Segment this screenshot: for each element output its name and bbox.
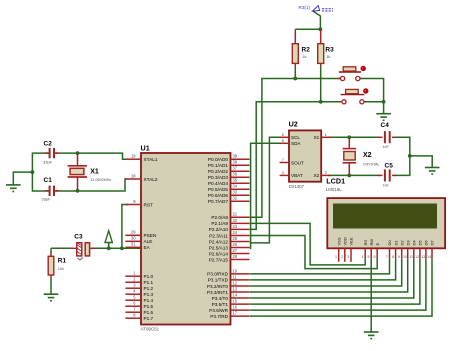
svg-text:35: 35 xyxy=(233,178,238,183)
svg-text:P2.2/A10: P2.2/A10 xyxy=(209,227,229,232)
wire LCD D2 to U1 P3.2 xyxy=(250,259,402,286)
svg-text:33pF: 33pF xyxy=(42,196,52,201)
wire LCD RS to U1 P2.1 pin22 xyxy=(250,223,365,265)
svg-text:19: 19 xyxy=(131,154,136,159)
svg-text:P0.1/AD1: P0.1/AD1 xyxy=(208,163,228,168)
svg-text:VBAT: VBAT xyxy=(291,173,303,178)
svg-text:SCL: SCL xyxy=(291,135,300,140)
wire LCD D6 to U1 P3.6 xyxy=(250,259,426,310)
ground (LCD RW) xyxy=(364,332,379,339)
wire voltage probe to R2/R3 top xyxy=(313,11,320,29)
svg-text:LCD1: LCD1 xyxy=(326,177,345,186)
wire RST-C3-EA net xyxy=(51,247,141,249)
svg-text:R2: R2 xyxy=(302,46,311,53)
wire XTAL2 net (C1/X1 bottom to U1 XTAL2 pin 18) xyxy=(32,179,127,191)
junction X1 top xyxy=(76,151,80,155)
op-amp U2 DS1307 RTC xyxy=(280,120,331,190)
svg-text:36: 36 xyxy=(233,172,238,177)
svg-text:P2.5/A13: P2.5/A13 xyxy=(209,245,229,250)
svg-text:P2.4/A12: P2.4/A12 xyxy=(209,239,229,244)
svg-text:13: 13 xyxy=(233,286,238,291)
svg-text:X2: X2 xyxy=(363,152,372,159)
junction crystal gnd branch xyxy=(31,170,35,174)
wire XTAL1 net (C2/X1 top to U1 XTAL1 pin 19) xyxy=(32,153,127,159)
svg-text:U2: U2 xyxy=(289,120,298,129)
junction crystal X2 top xyxy=(347,135,351,139)
wire gnd branch right of C4/C5 xyxy=(410,156,432,167)
svg-text:26: 26 xyxy=(233,242,238,247)
svg-text:1nF: 1nF xyxy=(383,184,390,188)
svg-text:C1: C1 xyxy=(44,177,53,184)
resistor R1 10k xyxy=(48,252,66,294)
wire button1/R2 net to U1 P2.0 xyxy=(250,79,341,218)
svg-text:33: 33 xyxy=(233,190,238,195)
svg-text:P0.0/AD0: P0.0/AD0 xyxy=(208,157,228,162)
svg-text:VDD: VDD xyxy=(343,237,348,246)
svg-text:23: 23 xyxy=(233,224,238,229)
svg-text:8: 8 xyxy=(392,255,394,259)
svg-text:9: 9 xyxy=(398,255,400,259)
svg-text:CRYSTAL: CRYSTAL xyxy=(363,162,380,166)
svg-text:18: 18 xyxy=(131,173,136,178)
ground (crystal caps) xyxy=(6,185,21,192)
svg-text:P2.6/A14: P2.6/A14 xyxy=(209,251,229,256)
svg-text:D1: D1 xyxy=(393,240,398,246)
wire left vertical joining C2 and C1 xyxy=(31,153,33,192)
capacitor C1 xyxy=(42,177,59,202)
svg-text:P1.0: P1.0 xyxy=(144,274,154,279)
svg-text:14: 14 xyxy=(427,255,431,259)
wire LCD D1 to U1 P3.1 xyxy=(250,259,396,280)
svg-text:RST: RST xyxy=(144,202,154,207)
wire SCL net U2 pin6 to U1 P2.4 pin25 xyxy=(250,137,281,243)
wire LCD D0 to U1 P3.0 xyxy=(250,259,390,274)
svg-text:30: 30 xyxy=(131,236,136,241)
wire LCD D3 to U1 P3.3 xyxy=(250,259,408,292)
junction R3 bottom xyxy=(319,100,323,104)
svg-text:14: 14 xyxy=(233,292,238,297)
svg-text:D3: D3 xyxy=(405,240,410,246)
LCD1 LM016L display xyxy=(326,177,445,262)
junction C4/C5 gnd branch xyxy=(408,154,412,158)
svg-text:D7: D7 xyxy=(430,240,435,246)
svg-text:2: 2 xyxy=(341,255,343,259)
svg-text:D6: D6 xyxy=(424,240,429,246)
svg-text:C5: C5 xyxy=(385,163,394,170)
svg-text:29: 29 xyxy=(131,230,136,235)
svg-text:U1: U1 xyxy=(141,144,150,153)
svg-text:17: 17 xyxy=(233,311,238,316)
junction R3 top / probe xyxy=(319,27,323,31)
resistor R2 1k xyxy=(292,29,310,78)
svg-text:12: 12 xyxy=(415,255,419,259)
svg-text:1k: 1k xyxy=(326,54,330,59)
svg-text:C2: C2 xyxy=(44,140,53,147)
svg-text:37: 37 xyxy=(233,166,238,171)
svg-text:10k: 10k xyxy=(58,266,64,271)
svg-text:R1: R1 xyxy=(58,258,67,265)
svg-text:XTAL1: XTAL1 xyxy=(144,157,158,162)
wire R2 top to R3 top xyxy=(295,28,320,30)
svg-text:P3.1/TXD: P3.1/TXD xyxy=(208,278,229,283)
svg-text:3: 3 xyxy=(347,255,349,259)
svg-text:D2: D2 xyxy=(399,240,404,246)
svg-text:SOUT: SOUT xyxy=(291,160,304,165)
svg-text:32: 32 xyxy=(233,196,238,201)
svg-text:E: E xyxy=(375,243,380,246)
svg-text:RS: RS xyxy=(363,240,368,246)
wire R1 top corner xyxy=(50,248,52,253)
wire LCD E to U1 P2.3 pin24 xyxy=(250,236,377,269)
svg-text:LM016L: LM016L xyxy=(326,187,342,192)
svg-text:39: 39 xyxy=(233,154,238,159)
wire U2 X1 pin1 to crystal top and C4 xyxy=(328,136,381,138)
junction power arrow stem xyxy=(107,246,111,250)
svg-text:11: 11 xyxy=(409,255,413,259)
svg-text:5: 5 xyxy=(368,255,370,259)
svg-text:P1.4: P1.4 xyxy=(144,298,154,303)
svg-text:P1.1: P1.1 xyxy=(144,280,154,285)
svg-text:27: 27 xyxy=(233,248,238,253)
push button 1 xyxy=(338,66,366,81)
capacitor C2 xyxy=(43,140,59,164)
svg-text:P0.3/AD3: P0.3/AD3 xyxy=(208,175,228,180)
svg-text:21: 21 xyxy=(233,212,238,217)
svg-text:P3.6/WR: P3.6/WR xyxy=(209,308,228,313)
svg-text:P1.6: P1.6 xyxy=(144,310,154,315)
svg-text:AT89C51: AT89C51 xyxy=(141,327,160,332)
junction crystal X2 bottom xyxy=(347,174,351,178)
svg-text:1nF: 1nF xyxy=(383,145,390,149)
ground (C4/C5) xyxy=(425,168,440,175)
svg-text:11.0592MHz: 11.0592MHz xyxy=(91,178,112,182)
svg-text:24: 24 xyxy=(233,230,238,235)
wire button2/R3 net to U1 P2.2 xyxy=(250,102,342,230)
wire C4 right to C5 right vertical xyxy=(394,137,410,175)
crystal X2 CRYSTAL xyxy=(343,137,380,175)
crystal X1 11.0592MHz xyxy=(68,153,112,191)
wire LCD D5 to U1 P3.5 xyxy=(250,259,420,304)
svg-text:4: 4 xyxy=(362,255,364,259)
svg-text:P3.0/RXD: P3.0/RXD xyxy=(207,272,228,277)
svg-text:P2.3/A11: P2.3/A11 xyxy=(209,233,228,238)
svg-text:15: 15 xyxy=(233,299,238,304)
svg-text:P3.7/RD: P3.7/RD xyxy=(210,314,228,319)
svg-text:P2.7/A15: P2.7/A15 xyxy=(209,257,229,262)
wire SDA net U2 pin5 to U1 P2.5 pin26 xyxy=(250,143,281,248)
svg-text:P3.3/INT1: P3.3/INT1 xyxy=(207,290,228,295)
svg-text:33pF: 33pF xyxy=(43,160,53,165)
svg-text:PSEN: PSEN xyxy=(144,233,157,238)
svg-text:P2.0/A8: P2.0/A8 xyxy=(211,215,228,220)
svg-text:P3.2/INT0: P3.2/INT0 xyxy=(207,284,228,289)
svg-text:X1: X1 xyxy=(314,135,320,140)
svg-text:ALE: ALE xyxy=(144,239,153,244)
voltage probe R3(1) xyxy=(299,5,334,11)
svg-text:P0.2/AD2: P0.2/AD2 xyxy=(208,169,228,174)
wire button1 right terminal to ground rail xyxy=(360,79,384,114)
svg-text:34: 34 xyxy=(233,184,238,189)
svg-text:P0.6/AD6: P0.6/AD6 xyxy=(208,193,228,198)
op-amp U1 AT89C51 microcontroller xyxy=(125,144,249,332)
svg-text:C3: C3 xyxy=(74,233,83,240)
svg-text:C4: C4 xyxy=(381,122,390,129)
junction R2 bottom xyxy=(293,77,297,81)
svg-text:10: 10 xyxy=(233,268,238,273)
svg-text:R3(1): R3(1) xyxy=(299,5,311,10)
svg-text:XTAL2: XTAL2 xyxy=(144,177,158,182)
svg-text:D5: D5 xyxy=(418,240,423,246)
wire ground branch of crystal caps xyxy=(13,172,32,185)
svg-text:SDA: SDA xyxy=(291,141,301,146)
ground (buttons) xyxy=(376,114,391,121)
capacitor C4 1nF xyxy=(378,122,396,149)
svg-text:X1: X1 xyxy=(90,169,99,176)
svg-text:P0.5/AD5: P0.5/AD5 xyxy=(208,187,228,192)
svg-text:P0.7/AD7: P0.7/AD7 xyxy=(208,199,228,204)
capacitor C3 (electrolytic) xyxy=(71,233,96,260)
svg-text:16: 16 xyxy=(233,305,238,310)
wire U2 X2 pin2 to crystal bottom and C5 xyxy=(328,174,381,176)
svg-text:31: 31 xyxy=(131,242,136,247)
wire button2 right terminal to ground rail xyxy=(364,101,384,103)
wire LCD D4 to U1 P3.4 xyxy=(250,259,414,298)
svg-text:25: 25 xyxy=(233,236,238,241)
svg-text:28: 28 xyxy=(233,254,238,259)
svg-text:P1.3: P1.3 xyxy=(144,292,154,297)
svg-text:P1.5: P1.5 xyxy=(144,304,154,309)
svg-text:D0: D0 xyxy=(387,240,392,246)
svg-text:RW: RW xyxy=(369,239,374,246)
svg-text:R3: R3 xyxy=(325,46,334,53)
svg-text:7: 7 xyxy=(386,255,388,259)
capacitor C5 1nF xyxy=(378,163,396,188)
svg-text:12: 12 xyxy=(233,280,238,285)
svg-text:D4: D4 xyxy=(412,240,417,246)
svg-text:P2.1/A9: P2.1/A9 xyxy=(211,221,228,226)
svg-text:38: 38 xyxy=(233,160,238,165)
svg-text:EA: EA xyxy=(144,245,151,250)
ground (R1) xyxy=(44,294,59,301)
wire LCD RW to ground xyxy=(370,259,372,332)
resistor R3 1k xyxy=(318,29,334,102)
svg-text:1k: 1k xyxy=(302,54,306,59)
svg-text:11: 11 xyxy=(233,274,238,279)
svg-text:13: 13 xyxy=(421,255,425,259)
svg-text:P3.5/T1: P3.5/T1 xyxy=(212,302,229,307)
power +5V arrow symbol xyxy=(108,243,110,249)
svg-text:P1.2: P1.2 xyxy=(144,286,154,291)
svg-text:P3.4/T0: P3.4/T0 xyxy=(212,296,229,301)
svg-text:10: 10 xyxy=(403,255,407,259)
wire LCD D7 to U1 P3.7 xyxy=(250,259,432,316)
svg-text:P0.4/AD4: P0.4/AD4 xyxy=(208,181,228,186)
svg-text:VEE: VEE xyxy=(349,237,354,245)
svg-text:VSS: VSS xyxy=(336,237,341,245)
junction X1 bottom xyxy=(76,189,80,193)
wire RST pin to net xyxy=(122,205,128,249)
svg-text:P1.7: P1.7 xyxy=(144,316,154,321)
svg-text:X2: X2 xyxy=(314,173,320,178)
svg-text:6: 6 xyxy=(374,255,376,259)
push button 2 xyxy=(340,88,369,104)
svg-text:DS1307: DS1307 xyxy=(289,184,305,189)
junction buttons ground rail xyxy=(382,100,386,104)
junction RST vertical xyxy=(120,246,124,250)
svg-text:22: 22 xyxy=(233,218,238,223)
svg-text:1: 1 xyxy=(335,255,337,259)
